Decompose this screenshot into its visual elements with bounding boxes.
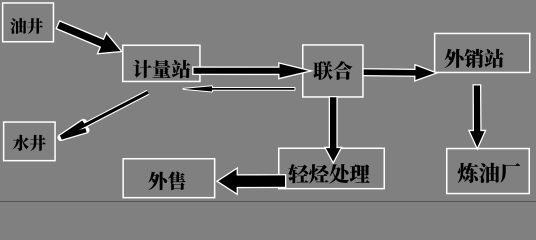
- thick arrow: metering station to union station: [194, 64, 309, 78]
- thin return arrow: union station back to metering station: [184, 86, 295, 91]
- thin arrow: metering station to water well: [61, 92, 148, 137]
- box export-station 外销站: [435, 33, 530, 72]
- box union-station 联合: [303, 45, 363, 97]
- dark screenshot edge at bottom: [0, 201, 536, 202]
- thick arrow: oil well to metering station: [57, 22, 120, 53]
- thick arrow: light hydrocarbon processing to external sale: [218, 169, 285, 193]
- box oil-well 油井: [3, 3, 54, 42]
- box water-well 水井: [4, 122, 55, 161]
- box metering-station 计量站: [123, 45, 200, 81]
- thick arrow: union station to export station: [364, 66, 435, 80]
- box external-sale 外售: [123, 159, 214, 198]
- thick arrow: export station down to refinery: [470, 86, 485, 148]
- box refinery 炼油厂: [447, 149, 530, 194]
- box light-hydrocarbon-processing 轻烃处理: [279, 148, 385, 188]
- thick arrow: union station down into light hydrocarbon processing: [326, 97, 341, 161]
